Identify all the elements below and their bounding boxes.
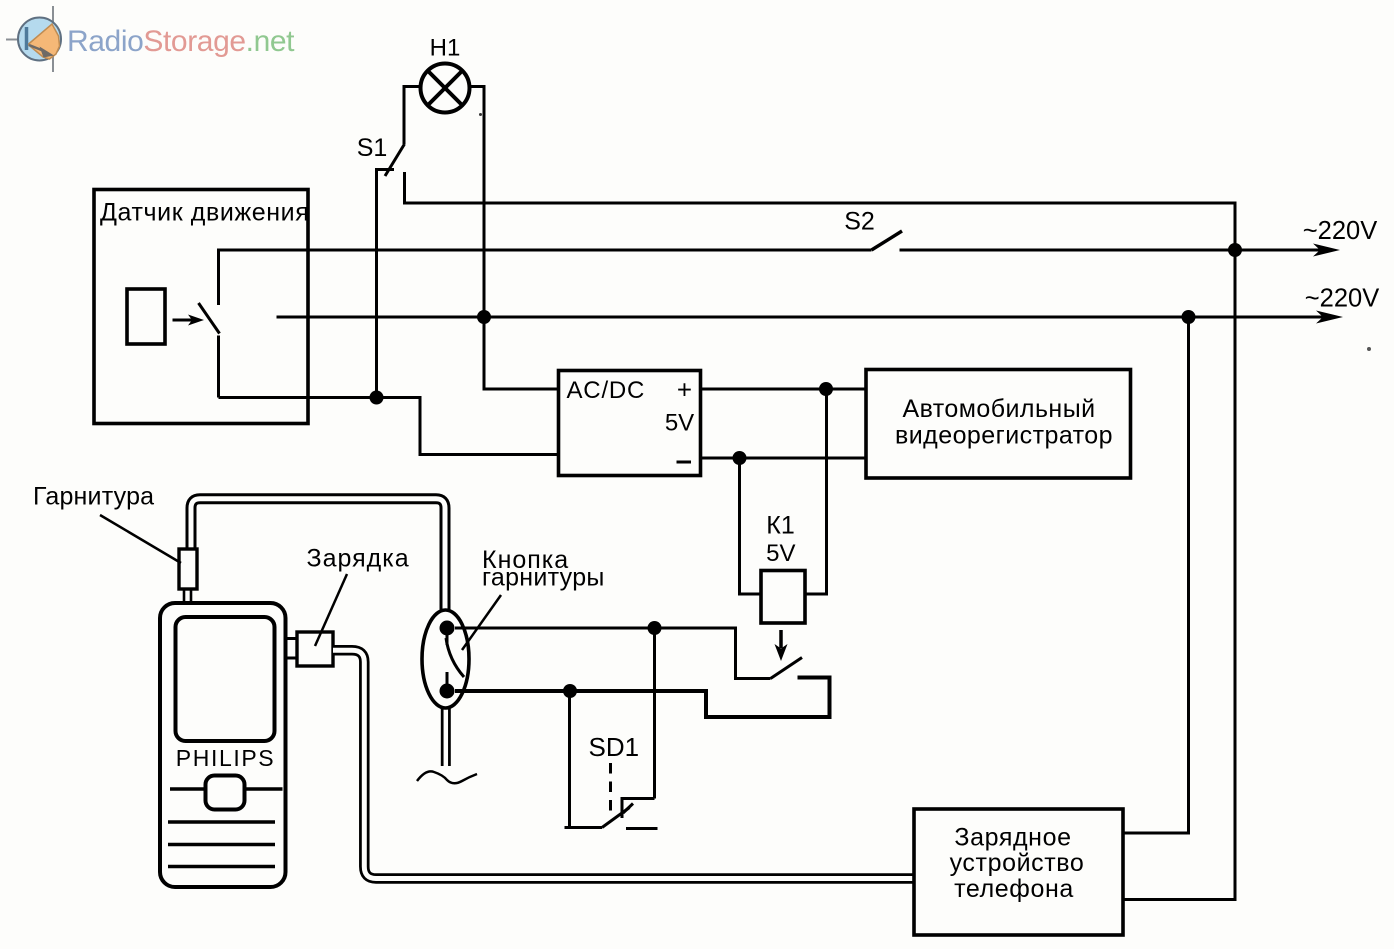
wire charger top lead to 220V line 2 [1123,317,1189,833]
wire relay coil right lead [805,389,827,594]
switch S1 left contact tick [375,168,394,171]
jack sleeve cable below ellipse (double line) [441,706,451,766]
plug stub to phone [183,589,186,604]
junction dot relay left lead on − wire [733,451,747,465]
leader line Кнопка гарнитуры [462,595,501,650]
phone charging unit box [914,809,1123,935]
sensor switch lower lead [217,336,220,398]
svg-text:Автомобильный: Автомобильный [902,395,1095,423]
wire relay contact right to jack sleeve [455,678,830,718]
junction dot SD1 left lead on jack sleeve wire [563,684,577,698]
sensor arrow [173,319,193,322]
AC/DC converter box [559,371,701,476]
arrow head 220V line 2 [1316,311,1343,324]
leader line Зарядка [315,574,347,646]
wire S1 left contact down to AC/DC input node [375,170,378,398]
svg-text:Зарядное: Зарядное [954,824,1071,852]
motion sensor box [94,190,308,424]
switch S2 blade [872,231,903,250]
svg-text:К1: К1 [766,512,794,540]
wire lamp left lead [404,87,421,145]
svg-text:гарнитуры: гарнитуры [482,564,605,592]
wire AC/DC + to DVR [701,388,867,391]
svg-text:+: + [677,375,692,405]
phone nav row lines [170,787,206,790]
svg-text:Датчик движения: Датчик движения [100,199,309,227]
SD1 blade tick [623,804,633,814]
220V line 2 (from sensor) [277,316,1332,319]
phone body [160,603,286,887]
SD1 right lead up to node [653,628,656,799]
phone keypad line 1 [168,820,275,823]
charger plug stub lines [286,637,297,640]
wire S2 to 220V arrow (line 1) [900,249,1329,252]
phone nav button [206,776,245,810]
label − [677,461,692,464]
headset cable (double line) [191,499,445,612]
wire sensor output to AC/DC lower input [219,398,559,455]
arrow head 220V line 1 [1313,244,1340,257]
junction dot SD1 right lead on jack tip wire [648,621,662,635]
svg-text:AC/DC: AC/DC [567,377,646,404]
wire relay coil left lead [740,458,762,594]
svg-text:RadioStorage.net: RadioStorage.net [67,25,295,58]
SD1 upper contact step [622,799,655,819]
charger connector box [297,632,333,666]
charger cable (double line) to charging unit [333,650,914,878]
sensor element rectangle [127,289,165,344]
cable break squiggle [417,771,477,783]
phone keypad line 3 [168,865,275,868]
SD1 fixed contact [626,827,658,830]
switch S1 blade [385,144,405,176]
wire sensor switch to S2 (second 220V line left part) [219,250,872,305]
jack tip tail [446,628,449,645]
svg-text:S2: S2 [844,208,875,236]
wire jack tip to relay contact / SD1 node [455,628,771,679]
svg-text:Зарядка: Зарядка [307,545,410,573]
svg-text:H1: H1 [430,35,461,62]
jack tip contact dot [440,621,455,636]
svg-text:видеорегистратор: видеорегистратор [895,422,1113,450]
wire S1 right contact to right rail and charger bottom lead [405,172,1236,900]
relay actuation arrow [779,630,783,648]
jack body ellipse [422,610,469,708]
svg-text:устройство: устройство [950,849,1085,877]
junction dot on S2 rail [1228,243,1242,257]
lamp H1 [421,64,470,113]
SD1 actuator dashed line [609,763,612,818]
jack internal curve [446,638,464,677]
svg-text:S1: S1 [357,134,388,162]
jack sleeve contact dot [440,684,455,699]
DVR box [866,370,1131,479]
jack sleeve tail [446,672,449,691]
headset plug [179,549,197,589]
junction dot S1 contact on sensor output wire [370,391,384,405]
wire lamp right lead down to AC/DC + input [469,87,559,390]
SD1 blade [602,808,630,828]
svg-text:телефона: телефона [954,875,1074,903]
SD1 left lead [570,691,603,828]
relay contact blade [771,658,803,679]
svg-text:5V: 5V [665,410,694,437]
svg-text:PHILIPS: PHILIPS [176,745,275,771]
wire AC/DC − to DVR [701,457,867,460]
junction dot lamp vertical on 220V line 2 [477,310,491,324]
svg-text:Гарнитура: Гарнитура [33,483,154,511]
stray speck [1367,347,1371,351]
site logo icon (transistor in circle) [6,6,61,72]
phone screen [176,617,275,741]
svg-text:~220V: ~220V [1305,285,1379,313]
svg-text:SD1: SD1 [589,732,640,762]
junction dot relay right lead on + wire [819,382,833,396]
phone keypad line 2 [168,843,275,846]
sensor switch blade [199,303,220,334]
svg-text:~220V: ~220V [1303,217,1377,245]
relay K1 coil [761,571,805,624]
junction dot charger top lead on 220V line 2 [1182,310,1196,324]
svg-text:5V: 5V [766,540,795,567]
leader line Гарнитура [100,515,181,563]
